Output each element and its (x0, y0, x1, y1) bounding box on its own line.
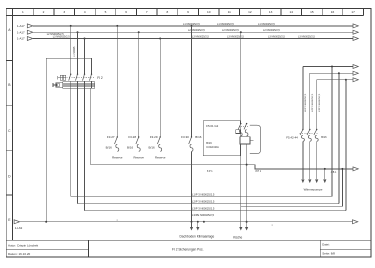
svg-text:D: D (8, 175, 11, 179)
svg-text:Autor: Crispin Löschek: Autor: Crispin Löschek (8, 243, 39, 247)
RCD mechanical linkage (67, 76, 95, 78)
FI/LS F5.01 label box (203, 121, 240, 156)
svg-text:B/16: B/16 (127, 145, 134, 149)
destination arrow (353, 71, 358, 75)
svg-text:2: 2 (43, 10, 45, 14)
svg-text:8 P 1: 8 P 1 (256, 170, 262, 173)
junction dot N heat pump tap (324, 168, 326, 170)
svg-text:Reserve: Reserve (133, 155, 144, 159)
svg-text:9: 9 (187, 10, 189, 14)
row letters A-E (8, 28, 11, 222)
svg-text:L3/P 3 N00025/2,5: L3/P 3 N00025/2,5 (192, 207, 215, 211)
wire L2 feeder (33, 31, 354, 33)
junction dot N kueche tap (246, 164, 248, 166)
svg-text:B/16: B/16 (149, 145, 156, 149)
destination arrow L3 to next page (353, 37, 358, 41)
RCD FI2 pole 4 (90, 74, 93, 89)
RCD FI2 pole 3 (83, 74, 86, 89)
RCD summation transformer housing (63, 82, 95, 88)
destination arrow (353, 65, 358, 69)
heat pump branch wires (303, 67, 317, 130)
svg-text:1-L62: 1-L62 (15, 226, 23, 230)
svg-text:E: E (8, 218, 11, 222)
svg-text:F3.30: F3.30 (181, 135, 189, 139)
svg-text:L3 NN0025/2,5: L3 NN0025/2,5 (192, 36, 209, 39)
svg-text:Seite: 8/8: Seite: 8/8 (322, 252, 335, 256)
svg-text:10: 10 (207, 10, 211, 14)
svg-text:0.03A/40A: 0.03A/40A (206, 145, 219, 149)
svg-text:F5.01 G2: F5.01 G2 (206, 124, 218, 128)
svg-text:16: 16 (331, 10, 335, 14)
bus wire aux lower (N riser) (240, 169, 342, 206)
svg-text:12: 12 (248, 10, 252, 14)
svg-text:15: 15 (310, 10, 314, 14)
svg-text:B/16: B/16 (106, 145, 113, 149)
svg-text:17: 17 (351, 10, 355, 14)
bus wire L1 lower (71, 195, 332, 197)
riser wires (332, 67, 346, 211)
junction dot aux N (341, 168, 343, 170)
wire name labels on feeders (47, 23, 316, 39)
svg-text:F3.27: F3.27 (107, 135, 115, 139)
arrow down to heat pump (301, 179, 304, 183)
svg-text:Wärmepumpe: Wärmepumpe (304, 187, 323, 191)
circuit breaker F3.30 Dachboden (181, 135, 202, 222)
svg-text:7: 7 (146, 10, 148, 14)
svg-text:11: 11 (228, 10, 231, 14)
svg-text:C: C (8, 129, 11, 133)
wire drops from feeders (71, 26, 241, 137)
circuit breaker F3.28 (Reserve) (127, 135, 144, 159)
bus labels lower (192, 192, 215, 217)
svg-text:L2/P 3 N00025/2,5: L2/P 3 N00025/2,5 (312, 93, 314, 112)
svg-text:L3 NN0025/2,5: L3 NN0025/2,5 (227, 36, 244, 39)
RCD FI2 pole 1 (69, 74, 72, 89)
PE wire from page 1 (20, 221, 354, 223)
svg-text:4: 4 (84, 10, 86, 14)
svg-text:F3.29: F3.29 (150, 135, 158, 139)
svg-text:FI 2: FI 2 (97, 76, 103, 80)
svg-text:L2 NN0025/2,5: L2 NN0025/2,5 (263, 29, 280, 32)
wire sub-bus at y73 (310, 72, 354, 74)
svg-text:14: 14 (289, 10, 293, 14)
svg-text:F3.28: F3.28 (128, 135, 136, 139)
svg-text:Datei:: Datei: (322, 243, 330, 247)
svg-text:Reserve: Reserve (155, 155, 166, 159)
arrow down to heat pump (315, 179, 318, 183)
svg-text:Reserve: Reserve (112, 155, 123, 159)
svg-text:L1 NN0025/2,5: L1 NN0025/2,5 (258, 23, 275, 26)
column numbers 1-17 (22, 10, 355, 14)
svg-text:1-A17: 1-A17 (17, 37, 25, 41)
RCD test button (58, 75, 66, 80)
RCD output wires (71, 88, 91, 210)
svg-text:F5.42-44: F5.42-44 (286, 136, 298, 140)
node labels 1-A17 (17, 24, 25, 41)
svg-text:4 B 1: 4 B 1 (331, 171, 337, 174)
svg-text:B/16: B/16 (206, 141, 212, 145)
svg-text:L3 NN0025/2,5: L3 NN0025/2,5 (268, 36, 285, 39)
wire L3 feeder (33, 38, 354, 40)
svg-text:L3 NN0025/2,5: L3 NN0025/2,5 (298, 36, 315, 39)
junction dots on feeders (70, 25, 242, 40)
svg-text:Dachboden Klimaanlage: Dachboden Klimaanlage (180, 235, 215, 239)
circuit breakers F5.42-44 (286, 129, 327, 142)
svg-text:Datum: 16.10.20: Datum: 16.10.20 (8, 252, 31, 256)
title block (6, 240, 371, 257)
svg-text:a: a (117, 220, 119, 222)
neutral wire after RCD (90, 165, 354, 169)
svg-text:B/16: B/16 (195, 135, 202, 139)
svg-text:6: 6 (125, 10, 127, 14)
destination arrow (353, 78, 358, 82)
svg-text:L1/P 3 N00025/2,5: L1/P 3 N00025/2,5 (192, 192, 215, 196)
heat pump output wires with arrows (303, 141, 325, 179)
svg-text:Küche: Küche (233, 236, 242, 240)
svg-text:13: 13 (269, 10, 273, 14)
destination arrow L1 to next page (353, 24, 358, 28)
destination arrow N (353, 167, 358, 171)
svg-text:L2 NN0025/2,5: L2 NN0025/2,5 (222, 29, 239, 32)
RCD handle (53, 83, 63, 88)
FI/LS F5.01 device (236, 123, 261, 222)
RCD FI2 pole 2 (76, 74, 79, 89)
svg-text:L3/PE N00025/2,5: L3/PE N00025/2,5 (192, 213, 214, 217)
source arrow L1 from page 1 (27, 24, 33, 28)
destination arrow L2 to next page (353, 30, 358, 34)
svg-text:L2 NN0025/2,5: L2 NN0025/2,5 (188, 29, 205, 32)
svg-text:L1/P 3 N00025/2,5: L1/P 3 N00025/2,5 (305, 93, 307, 112)
source arrow L3 from page 1 (27, 37, 33, 41)
wire L1 feeder (33, 25, 354, 27)
svg-text:8: 8 (167, 10, 169, 14)
RCD FI 2 neutral loop wire (46, 58, 91, 222)
wire sub-bus at y66 (303, 66, 354, 68)
svg-text:5: 5 (105, 10, 107, 14)
svg-text:a: a (272, 224, 274, 226)
svg-text:3: 3 (63, 10, 65, 14)
source arrow L2 from page 1 (27, 30, 33, 34)
source arrow PE (14, 220, 20, 224)
junction dots risers (331, 66, 347, 81)
svg-text:1-A17: 1-A17 (17, 30, 25, 34)
Dachboden branch arrows (192, 222, 198, 227)
svg-text:L1 N0025: L1 N0025 (73, 46, 76, 57)
circuit breaker F3.29 (Reserve) (149, 135, 166, 159)
svg-text:8 P 1: 8 P 1 (207, 170, 213, 173)
svg-text:L1 NN0025/2,5: L1 NN0025/2,5 (217, 23, 234, 26)
wire sub-bus at y80 (317, 79, 355, 81)
small labels on N wire (207, 170, 337, 174)
svg-text:FI 2 Sicherungen Pos.: FI 2 Sicherungen Pos. (172, 248, 204, 252)
junction dots PE (45, 221, 205, 223)
svg-text:L2/P 3 N00025/2,5: L2/P 3 N00025/2,5 (192, 200, 215, 204)
svg-text:L3/P 3 N00025/2,5: L3/P 3 N00025/2,5 (319, 93, 321, 112)
bus wire L3 lower (85, 210, 346, 212)
arrows to Kueche circuit (240, 222, 242, 227)
arrow down to heat pump (323, 179, 326, 183)
destination arrow PE (353, 220, 358, 224)
arrow down to heat pump (308, 179, 311, 183)
svg-text:1: 1 (22, 10, 24, 14)
circuit breaker F3.27 (Reserve) (106, 135, 123, 159)
svg-text:B/16: B/16 (321, 135, 327, 139)
title block texts (8, 243, 335, 256)
svg-text:B: B (8, 83, 11, 87)
svg-text:A: A (8, 28, 11, 32)
bus wire L2 lower (78, 203, 339, 205)
svg-text:1-A17: 1-A17 (17, 24, 25, 28)
svg-text:L3 NN0025/2,5: L3 NN0025/2,5 (53, 36, 70, 39)
rotated wire labels heat pump (305, 93, 321, 112)
